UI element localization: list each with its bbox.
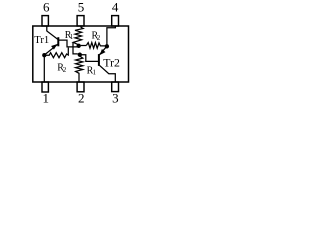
svg-text:Tr1: Tr1 [34, 35, 49, 46]
svg-text:3: 3 [112, 91, 119, 106]
svg-text:1: 1 [70, 33, 74, 41]
svg-text:2: 2 [78, 91, 85, 106]
svg-text:2: 2 [97, 34, 101, 42]
svg-text:Tr2: Tr2 [103, 55, 120, 69]
svg-text:1: 1 [93, 68, 97, 76]
svg-text:6: 6 [43, 0, 50, 15]
svg-text:5: 5 [78, 0, 85, 15]
svg-text:1: 1 [42, 90, 49, 105]
svg-text:2: 2 [63, 66, 67, 74]
svg-text:4: 4 [112, 0, 119, 15]
